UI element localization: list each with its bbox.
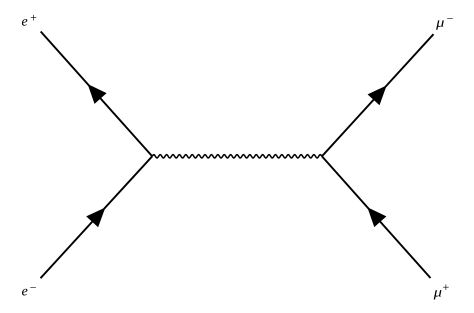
photon wavy line (gamma propagator) — [152, 155, 322, 158]
arrow on e+ line — [88, 84, 107, 104]
arrow on mu+ line — [367, 207, 386, 227]
arrow on e- line — [86, 207, 105, 227]
fermion line e+ (top-left incoming positron) — [41, 32, 153, 157]
fermion line e- (bottom-left incoming electron) — [41, 156, 153, 278]
label mu+ (bottom-right) — [434, 290, 442, 299]
label e+ (top-left) — [22, 19, 27, 26]
label e- (bottom-left) — [22, 289, 27, 296]
arrow on mu- line — [368, 85, 387, 105]
label mu- (top-right) — [436, 20, 444, 29]
fermion line mu- (top-right outgoing muon) — [322, 34, 434, 156]
fermion line mu+ (bottom-right outgoing antimuon) — [322, 156, 431, 278]
